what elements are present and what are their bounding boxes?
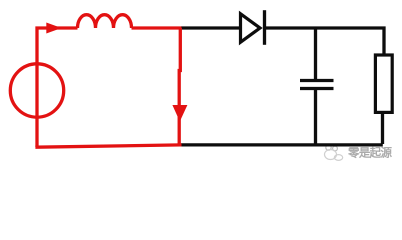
svg-text:零是起源: 零是起源 (347, 146, 393, 160)
